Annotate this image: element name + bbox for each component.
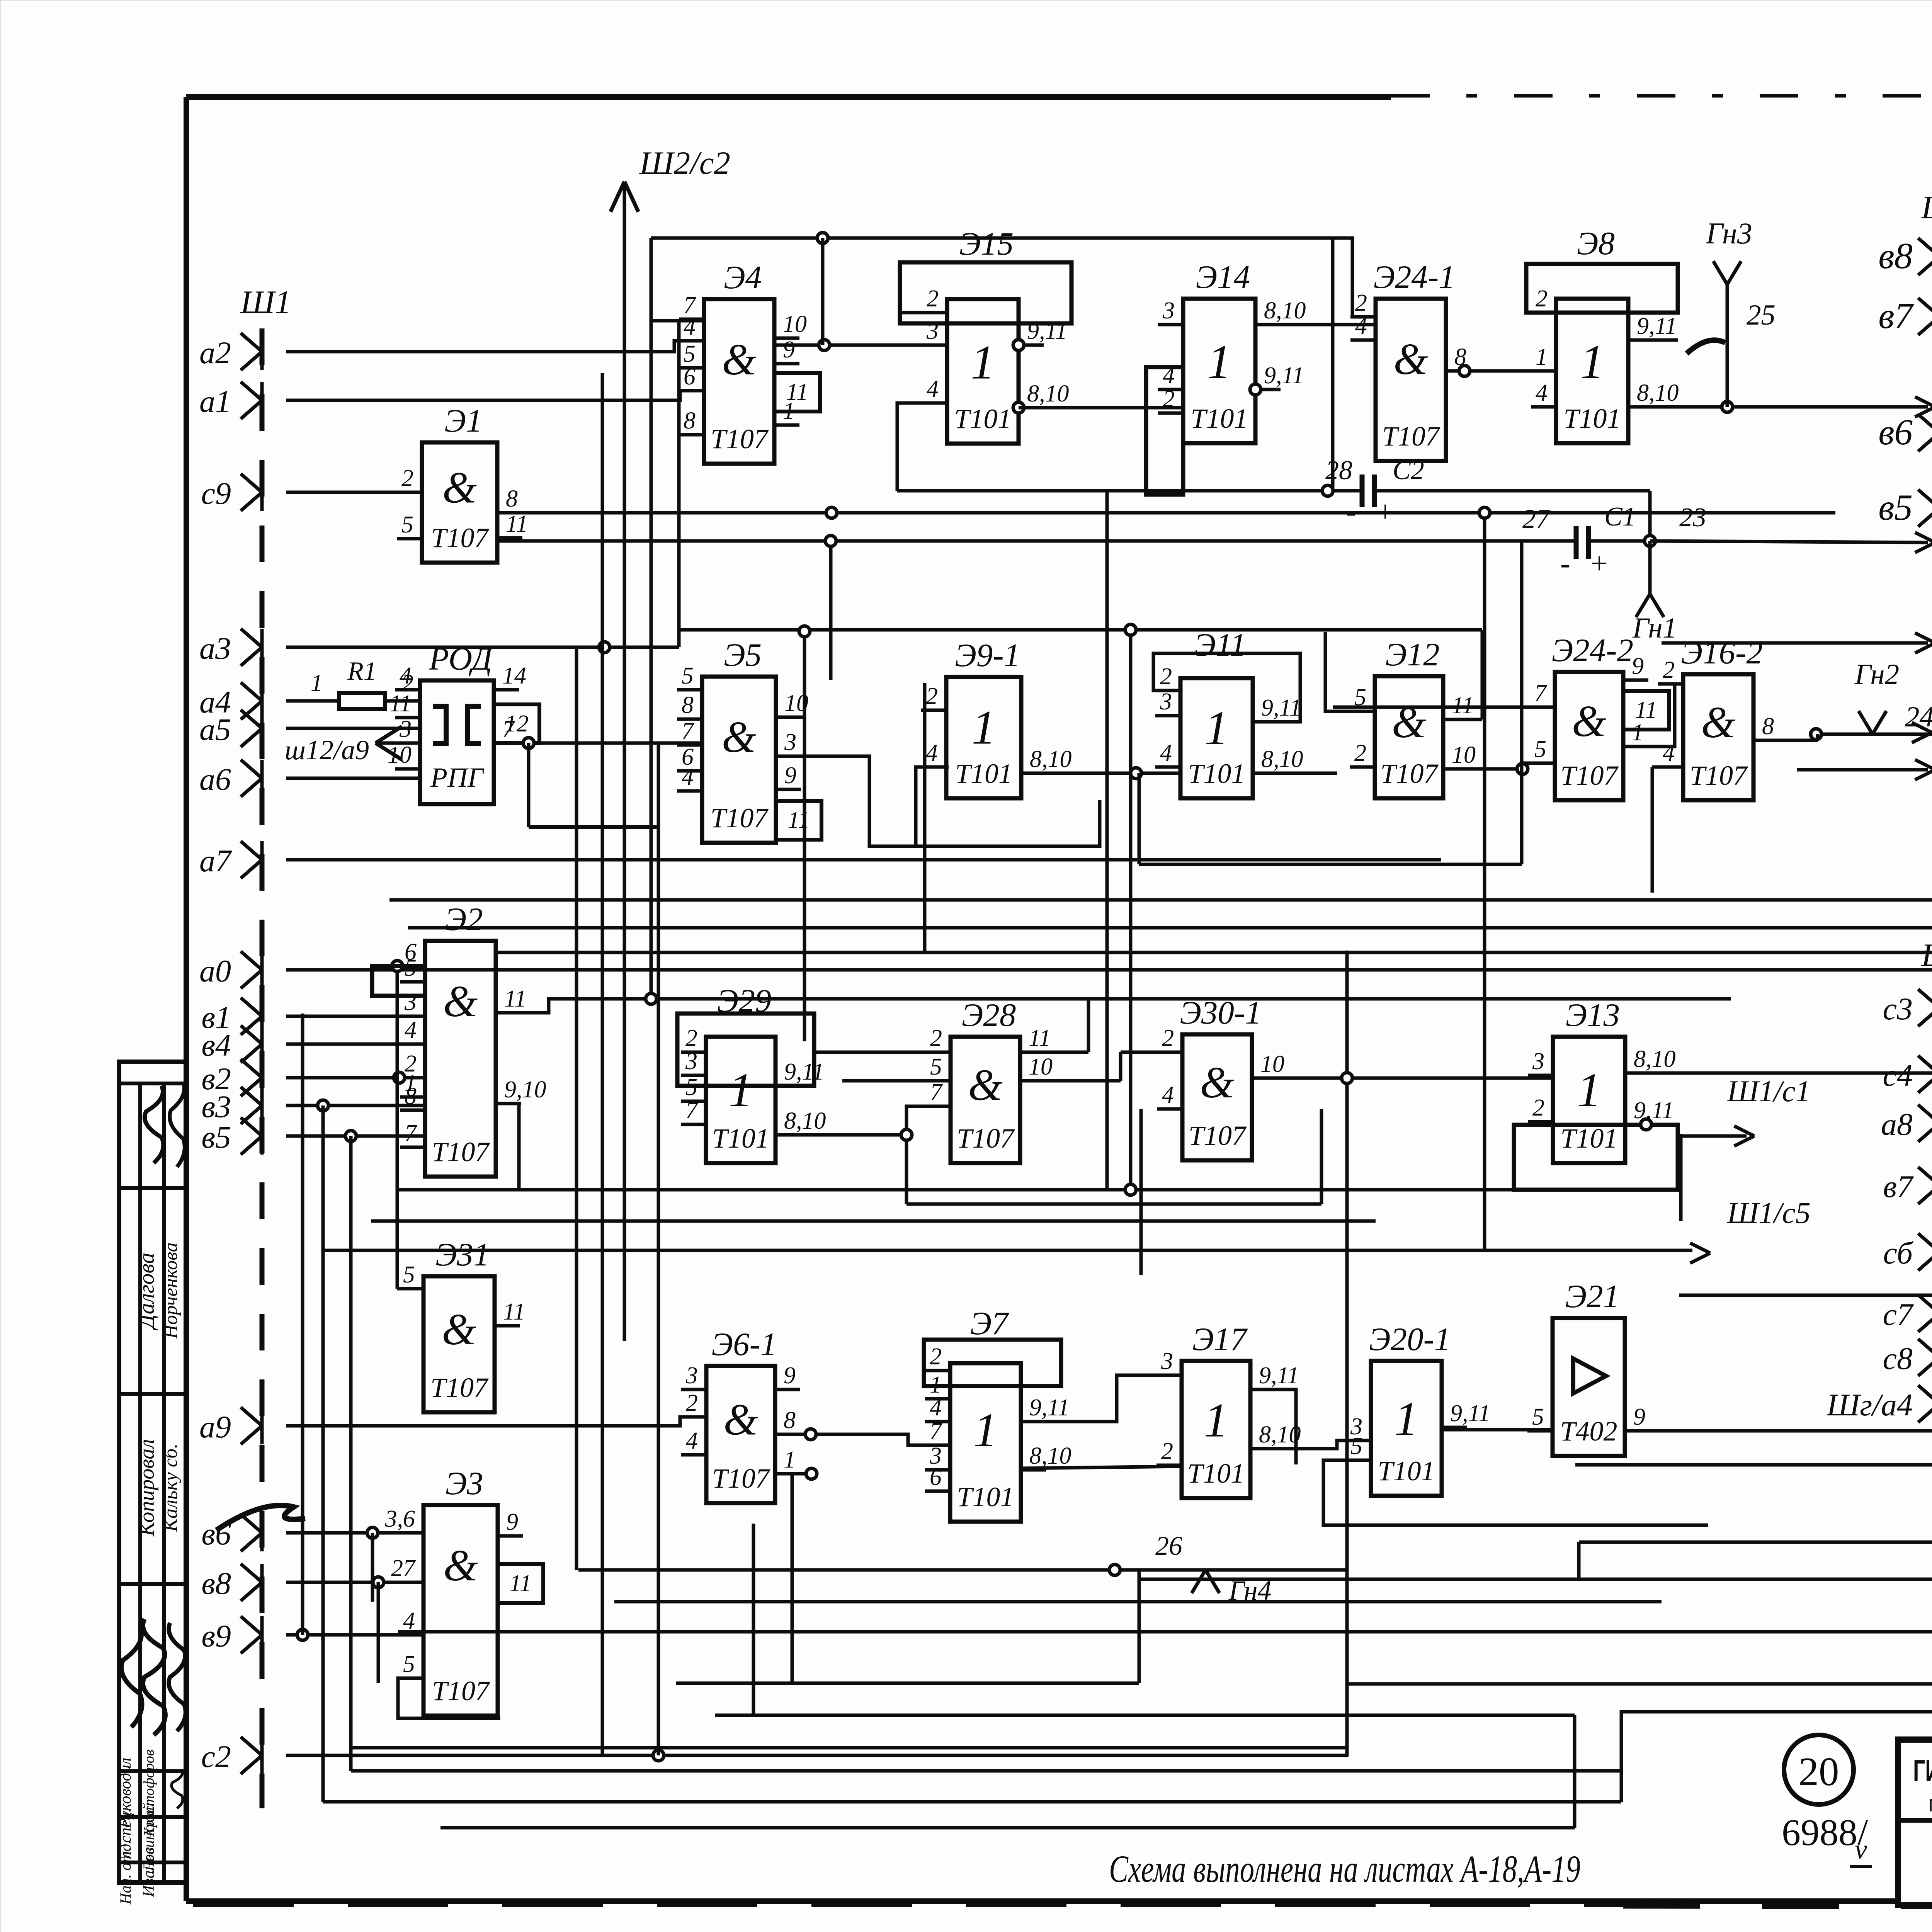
svg-text:Т101: Т101: [955, 758, 1012, 789]
svg-text:&: &: [1200, 1058, 1234, 1107]
svg-text:1: 1: [1394, 1393, 1418, 1446]
svg-text:-: -: [1560, 546, 1570, 580]
svg-text:4: 4: [1160, 740, 1172, 766]
svg-text:2: 2: [1160, 663, 1172, 690]
svg-text:8: 8: [506, 486, 518, 512]
svg-text:Э17: Э17: [1192, 1321, 1248, 1357]
svg-text:4: 4: [684, 314, 696, 340]
svg-text:Т101: Т101: [1188, 758, 1245, 789]
svg-text:Ш1: Ш1: [240, 284, 291, 320]
svg-text:Т107: Т107: [432, 1675, 490, 1706]
svg-text:+: +: [1591, 546, 1608, 580]
svg-text:в8: в8: [201, 1566, 231, 1601]
svg-text:25: 25: [1747, 299, 1776, 331]
svg-text:Т101: Т101: [1563, 403, 1621, 434]
svg-text:РПГ: РПГ: [430, 762, 485, 793]
svg-text:9: 9: [783, 337, 795, 363]
svg-text:Ш1/с5: Ш1/с5: [1727, 1196, 1811, 1230]
svg-text:4: 4: [682, 764, 694, 790]
svg-text:5: 5: [682, 663, 694, 689]
svg-text:а5: а5: [199, 712, 231, 747]
svg-text:в7: в7: [1883, 1169, 1914, 1204]
svg-text:Т101: Т101: [1560, 1123, 1617, 1154]
svg-text:с8: с8: [1883, 1341, 1913, 1376]
svg-text:Гн2: Гн2: [1854, 658, 1899, 690]
svg-text:8,10: 8,10: [784, 1108, 826, 1134]
svg-text:8,10: 8,10: [1264, 298, 1306, 324]
svg-text:28: 28: [1325, 456, 1352, 485]
svg-text:Иванов: Иванов: [140, 1847, 158, 1897]
svg-text:1: 1: [729, 1064, 753, 1117]
svg-text:7: 7: [682, 718, 695, 744]
svg-text:4: 4: [1536, 380, 1548, 406]
svg-text:Далгова: Далгова: [134, 1253, 159, 1331]
svg-text:10: 10: [783, 311, 807, 337]
svg-text:Норченкова: Норченкова: [160, 1242, 181, 1339]
svg-text:а6: а6: [199, 762, 231, 797]
svg-text:10: 10: [1260, 1051, 1284, 1077]
svg-text:5: 5: [930, 1054, 942, 1080]
svg-text:11: 11: [786, 379, 808, 405]
svg-text:10: 10: [1029, 1054, 1053, 1080]
svg-text:23: 23: [1679, 503, 1706, 532]
svg-text:5: 5: [684, 341, 696, 367]
svg-text:Э2: Э2: [445, 901, 483, 937]
svg-text:1: 1: [1204, 1394, 1228, 1447]
svg-text:в5: в5: [1878, 487, 1913, 528]
svg-text:7: 7: [930, 1079, 943, 1105]
svg-text:7: 7: [930, 1418, 943, 1444]
svg-text:г. Ростов-на-Дону 1976г.: г. Ростов-на-Дону 1976г.: [1929, 1791, 1932, 1816]
svg-text:&: &: [723, 1395, 758, 1444]
svg-text:8,10: 8,10: [1030, 746, 1072, 772]
svg-text:4: 4: [927, 376, 939, 402]
svg-text:Т107: Т107: [1382, 421, 1440, 452]
svg-text:3: 3: [1160, 689, 1172, 715]
svg-text:а2: а2: [199, 335, 231, 370]
svg-text:Э3: Э3: [446, 1465, 483, 1502]
svg-text:С1: С1: [1604, 502, 1636, 532]
svg-text:&: &: [722, 335, 756, 384]
svg-text:6: 6: [930, 1464, 942, 1490]
svg-text:8,10: 8,10: [1027, 381, 1069, 407]
svg-text:Т101: Т101: [1190, 403, 1248, 434]
svg-text:1: 1: [1580, 336, 1604, 389]
svg-text:&: &: [1392, 698, 1426, 747]
svg-text:а7: а7: [199, 843, 232, 878]
svg-text:а3: а3: [199, 631, 231, 666]
svg-text:11: 11: [504, 986, 526, 1012]
svg-text:2: 2: [1354, 740, 1366, 766]
svg-text:&: &: [443, 977, 478, 1026]
svg-text:&: &: [1701, 698, 1735, 747]
svg-text:Э1: Э1: [444, 403, 482, 439]
svg-text:4: 4: [405, 1017, 417, 1043]
svg-text:Э31: Э31: [435, 1236, 490, 1273]
svg-text:9,11: 9,11: [784, 1059, 824, 1085]
svg-text:Т402: Т402: [1560, 1416, 1617, 1447]
svg-text:Т101: Т101: [1378, 1456, 1435, 1486]
svg-text:Т107: Т107: [432, 1136, 490, 1167]
svg-text:&: &: [442, 463, 477, 512]
svg-text:в6: в6: [1878, 412, 1913, 452]
svg-text:Гн1: Гн1: [1632, 612, 1677, 644]
svg-text:с3: с3: [1883, 991, 1913, 1026]
svg-text:Т107: Т107: [957, 1123, 1015, 1154]
svg-text:2: 2: [401, 465, 413, 492]
svg-text:а8: а8: [1881, 1107, 1913, 1142]
svg-text:Ш1/с1: Ш1/с1: [1727, 1074, 1811, 1108]
svg-text:2: 2: [685, 1025, 697, 1051]
svg-text:5: 5: [401, 512, 413, 538]
svg-text:1: 1: [973, 1404, 998, 1457]
svg-text:1: 1: [784, 1447, 796, 1473]
svg-text:&: &: [968, 1061, 1002, 1110]
svg-text:11: 11: [509, 1570, 531, 1597]
svg-text:7: 7: [1534, 680, 1548, 706]
svg-text:в3: в3: [201, 1089, 231, 1124]
svg-text:1: 1: [1632, 719, 1644, 746]
svg-text:5: 5: [1534, 736, 1546, 762]
svg-text:5: 5: [1350, 1433, 1362, 1459]
svg-text:10: 10: [1452, 742, 1476, 768]
svg-text:ГИПРОСТРОЙДОРМАШ: ГИПРОСТРОЙДОРМАШ: [1913, 1753, 1932, 1788]
svg-text:8,10: 8,10: [1634, 1046, 1676, 1072]
svg-text:Т101: Т101: [954, 403, 1011, 434]
svg-text:27: 27: [1522, 504, 1551, 534]
svg-text:Э16-2: Э16-2: [1681, 634, 1762, 671]
svg-text:9,11: 9,11: [1029, 1395, 1070, 1421]
svg-text:11: 11: [1029, 1025, 1051, 1051]
svg-text:1: 1: [311, 670, 323, 696]
svg-text:Э15: Э15: [959, 226, 1014, 262]
svg-text:1: 1: [1577, 1064, 1601, 1117]
svg-text:1: 1: [971, 336, 995, 389]
svg-text:Т107: Т107: [712, 1463, 770, 1494]
svg-text:9: 9: [784, 762, 796, 789]
svg-text:2: 2: [401, 670, 413, 696]
svg-text:9,11: 9,11: [1264, 362, 1304, 389]
svg-text:v: v: [1855, 1834, 1867, 1865]
svg-text:Э28: Э28: [962, 997, 1016, 1033]
svg-text:Копировал: Копировал: [135, 1439, 159, 1536]
svg-text:Э7: Э7: [970, 1305, 1010, 1342]
svg-text:5: 5: [1532, 1404, 1544, 1430]
svg-text:Т107: Т107: [1189, 1120, 1247, 1151]
svg-text:4: 4: [930, 1395, 942, 1421]
svg-text:7: 7: [685, 1097, 699, 1124]
svg-text:9,10: 9,10: [504, 1077, 546, 1103]
svg-text:Кальку сб.: Кальку сб.: [160, 1444, 182, 1532]
svg-text:Э5: Э5: [724, 637, 762, 673]
svg-text:9: 9: [1633, 1404, 1645, 1430]
svg-text:Т107: Т107: [710, 803, 769, 833]
svg-text:Э20-1: Э20-1: [1369, 1321, 1451, 1357]
svg-text:3: 3: [685, 1048, 697, 1075]
svg-text:Т107: Т107: [1690, 760, 1748, 791]
svg-text:Э6-1: Э6-1: [711, 1326, 777, 1362]
svg-text:&: &: [1572, 697, 1606, 746]
svg-text:Э21: Э21: [1565, 1278, 1620, 1315]
svg-text:27: 27: [391, 1555, 416, 1582]
svg-text:в7: в7: [1878, 295, 1914, 336]
svg-text:ш12/а9: ш12/а9: [285, 735, 369, 765]
svg-text:9,11: 9,11: [1450, 1400, 1490, 1427]
svg-text:С2: С2: [1393, 456, 1424, 485]
svg-text:с2: с2: [201, 1739, 231, 1774]
svg-text:Т107: Т107: [430, 1372, 489, 1403]
svg-text:5: 5: [403, 1262, 415, 1288]
svg-text:24: 24: [1905, 701, 1932, 733]
svg-text:&: &: [1393, 335, 1428, 384]
svg-text:Нач. отд.: Нач. отд.: [117, 1840, 134, 1905]
svg-text:Э13: Э13: [1566, 997, 1620, 1033]
svg-text:5: 5: [403, 1651, 415, 1677]
svg-text:4: 4: [1663, 740, 1675, 766]
svg-text:1: 1: [1204, 702, 1229, 755]
svg-text:Т101: Т101: [1187, 1458, 1245, 1489]
svg-text:Т107: Т107: [1560, 760, 1619, 791]
svg-text:2: 2: [930, 1344, 942, 1370]
svg-text:9,11: 9,11: [1261, 695, 1301, 721]
svg-text:20: 20: [1799, 1749, 1839, 1794]
svg-text:Э12: Э12: [1385, 636, 1440, 673]
svg-text:а9: а9: [199, 1409, 231, 1444]
svg-text:3: 3: [1161, 1348, 1173, 1374]
svg-text:8: 8: [682, 692, 694, 718]
svg-text:4: 4: [1162, 1082, 1174, 1108]
svg-text:а1: а1: [199, 384, 231, 419]
svg-text:4: 4: [686, 1428, 698, 1454]
svg-text:а0: а0: [199, 953, 231, 988]
svg-text:Т107: Т107: [1380, 758, 1439, 789]
svg-text:9,11: 9,11: [1634, 1097, 1674, 1124]
svg-text:Т107: Т107: [711, 423, 769, 454]
svg-text:в9: в9: [201, 1618, 231, 1653]
svg-text:2: 2: [1532, 1095, 1544, 1121]
svg-text:&: &: [722, 713, 756, 762]
svg-text:2: 2: [1355, 290, 1367, 316]
svg-text:2: 2: [930, 1025, 942, 1051]
svg-text:Ш1: Ш1: [1921, 937, 1932, 973]
svg-text:14: 14: [502, 663, 526, 689]
svg-text:R1: R1: [347, 656, 377, 685]
svg-text:с7: с7: [1883, 1297, 1914, 1332]
svg-text:в5: в5: [201, 1119, 231, 1155]
svg-text:3: 3: [1532, 1048, 1544, 1075]
svg-text:1: 1: [1536, 344, 1548, 370]
svg-text:9: 9: [506, 1509, 518, 1535]
svg-text:8: 8: [784, 1407, 796, 1434]
svg-text:7: 7: [405, 1120, 418, 1146]
svg-text:Т101: Т101: [957, 1481, 1014, 1512]
svg-text:сб: сб: [1883, 1235, 1913, 1270]
svg-text:с9: с9: [201, 476, 231, 511]
svg-text:2: 2: [1161, 1438, 1173, 1464]
svg-text:с4: с4: [1883, 1058, 1913, 1093]
svg-text:11: 11: [787, 807, 810, 833]
svg-text:1: 1: [1207, 336, 1231, 389]
svg-text:1: 1: [972, 701, 996, 755]
svg-text:8,10: 8,10: [1637, 380, 1679, 406]
svg-text:9,11: 9,11: [1637, 313, 1677, 339]
svg-text:Э9-1: Э9-1: [955, 637, 1020, 673]
svg-text:6: 6: [684, 364, 696, 390]
svg-text:4: 4: [926, 740, 938, 766]
svg-text:Э4: Э4: [724, 259, 762, 296]
svg-text:11: 11: [1635, 697, 1657, 723]
svg-text:Э24-2: Э24-2: [1552, 632, 1633, 668]
svg-text:2: 2: [1162, 1025, 1174, 1051]
svg-text:2: 2: [927, 286, 939, 312]
svg-text:&: &: [442, 1305, 476, 1354]
svg-text:9: 9: [1632, 653, 1644, 679]
svg-text:Э11: Э11: [1194, 627, 1246, 663]
svg-text:Э24-1: Э24-1: [1373, 259, 1455, 295]
svg-text:Шг/а4: Шг/а4: [1827, 1387, 1913, 1422]
svg-text:3: 3: [685, 1362, 698, 1389]
svg-text:9,11: 9,11: [1259, 1362, 1299, 1389]
svg-text:2: 2: [1536, 286, 1548, 312]
svg-text:26: 26: [1155, 1531, 1182, 1561]
svg-text:3,6: 3,6: [385, 1506, 415, 1532]
svg-text:8: 8: [684, 408, 696, 434]
svg-text:8: 8: [1762, 713, 1774, 740]
svg-text:2: 2: [1663, 657, 1675, 683]
svg-text:3: 3: [1162, 298, 1175, 324]
svg-text:9: 9: [784, 1362, 796, 1389]
svg-text:Э8: Э8: [1577, 225, 1615, 262]
svg-text:8,10: 8,10: [1029, 1443, 1071, 1469]
svg-text:Ш2: Ш2: [1921, 189, 1932, 226]
svg-text:&: &: [443, 1541, 478, 1590]
svg-text:Э14: Э14: [1196, 259, 1250, 295]
svg-text:Ш2/с2: Ш2/с2: [639, 145, 730, 181]
svg-text:3: 3: [784, 729, 796, 755]
svg-text:11: 11: [503, 1299, 525, 1325]
svg-text:2: 2: [686, 1390, 698, 1416]
svg-text:Т101: Т101: [712, 1123, 769, 1154]
svg-text:2: 2: [926, 683, 938, 709]
svg-text:11: 11: [506, 511, 528, 537]
svg-text:Гн3: Гн3: [1706, 216, 1752, 250]
svg-text:Т107: Т107: [431, 522, 489, 553]
svg-text:12: 12: [505, 711, 529, 737]
svg-text:3: 3: [404, 989, 417, 1015]
svg-text:8,10: 8,10: [1261, 746, 1303, 772]
svg-text:Схема выполнена на листах: Схема выполнена на листах А-18,А-19: [1109, 1847, 1580, 1890]
svg-text:в4: в4: [201, 1027, 231, 1063]
svg-text:в8: в8: [1878, 235, 1913, 276]
